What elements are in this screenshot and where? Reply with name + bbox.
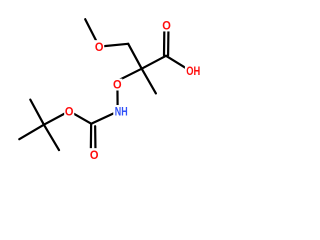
wire Ctbu-methyl-up [30,100,44,125]
wire O3-Ctbu [44,111,69,125]
svg-text:O: O [162,18,171,32]
wire CH2-C2 [128,44,142,69]
svg-text:O: O [65,105,74,119]
wire Ctbu-methyl-left [19,125,44,140]
wire C2-Ccarboxyl [142,56,166,69]
svg-text:O: O [113,78,122,92]
wire C2-methyl [142,69,156,94]
wire Ccarboxyl-OH [166,56,190,71]
svg-text:O: O [95,40,104,54]
svg-text:NH: NH [115,105,128,119]
wire N-Ccarbamate [91,111,117,123]
svg-text:OH: OH [186,64,200,78]
wire Ccarbamate-O3 [69,111,91,124]
wire O1-CH2 [99,44,128,47]
wire CH3-O1 (methoxy methyl bond) [85,19,99,46]
wire C=O carboxyl double bond [163,25,166,55]
svg-text:O: O [90,148,99,162]
label masks [64,19,202,161]
wire C2-O2 [117,69,141,81]
wire C=O carbamate double bond [90,124,93,149]
wire Ctbu-methyl-down [44,125,59,150]
wire O2-N [116,84,118,111]
